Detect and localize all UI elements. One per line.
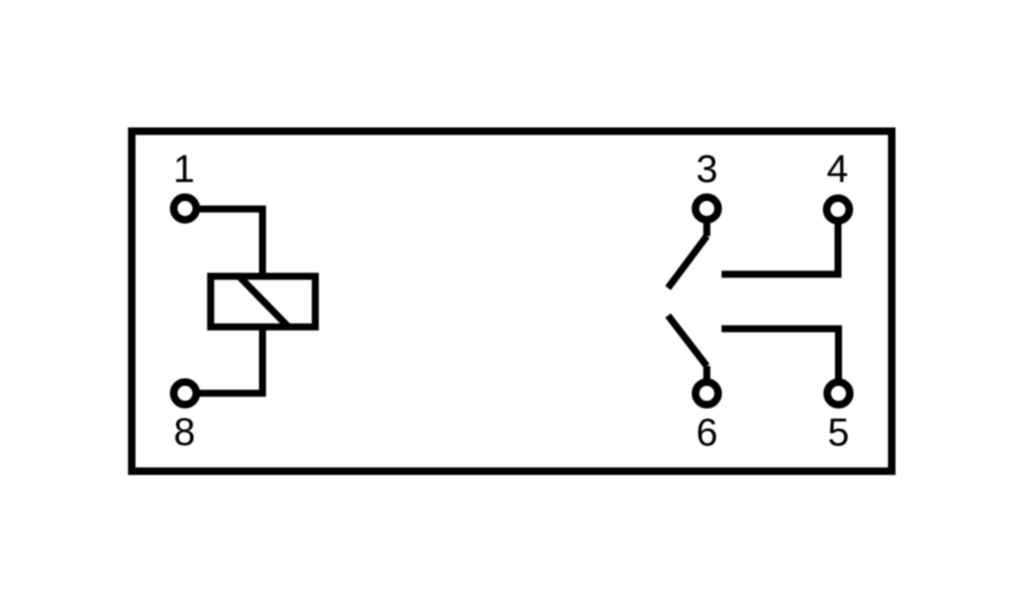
svg-text:1: 1 (173, 148, 195, 191)
svg-text:4: 4 (827, 148, 849, 191)
pin 6 terminal (696, 382, 719, 405)
relay case outline (132, 131, 892, 471)
switch armature from pin 3 (668, 236, 707, 288)
relay coil (211, 276, 316, 327)
wire pin 4 contact (722, 221, 839, 274)
pin 8 terminal (174, 382, 197, 405)
svg-text:6: 6 (696, 411, 718, 454)
svg-text:3: 3 (696, 148, 718, 191)
coil diagonal stripe (239, 276, 289, 327)
wire stub above pin 6 (703, 366, 710, 382)
pin 5 terminal (827, 382, 850, 405)
wire pin 1 to coil top (197, 209, 263, 277)
wire coil bottom to pin 8 (197, 327, 263, 394)
switch armature from pin 6 (668, 316, 707, 367)
svg-text:8: 8 (174, 411, 196, 454)
pin 3 terminal (696, 197, 719, 220)
svg-text:5: 5 (828, 412, 850, 455)
wire pin 5 contact (722, 329, 839, 382)
wire stub below pin 3 (703, 220, 710, 236)
pin 4 terminal (827, 198, 850, 221)
pin 1 terminal (174, 197, 197, 220)
